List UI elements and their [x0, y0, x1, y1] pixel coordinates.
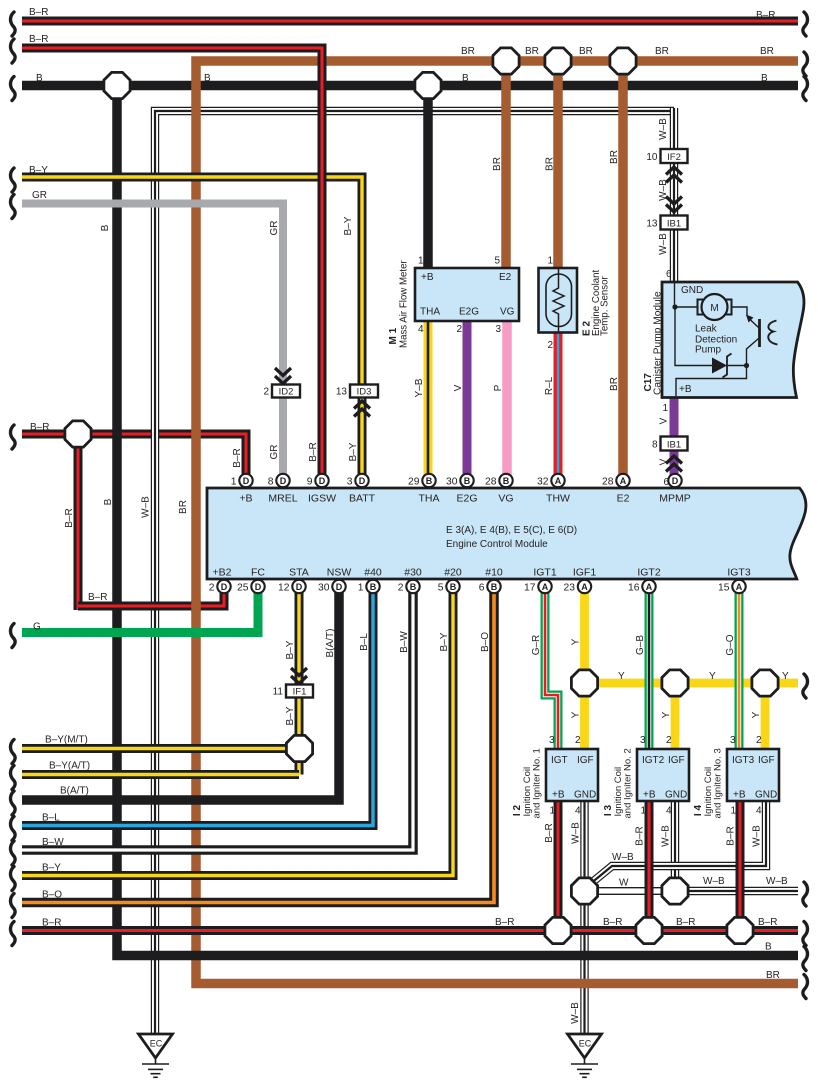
- svg-text:#10: #10: [485, 567, 503, 579]
- svg-text:25: 25: [237, 582, 249, 593]
- svg-text:B: B: [100, 224, 111, 231]
- svg-text:W–B: W–B: [752, 825, 763, 847]
- svg-text:2: 2: [398, 582, 404, 593]
- svg-text:+B: +B: [552, 790, 565, 801]
- svg-text:Y: Y: [571, 711, 582, 718]
- svg-text:4: 4: [575, 806, 581, 817]
- svg-text:#40: #40: [364, 567, 382, 579]
- svg-text:D: D: [336, 582, 343, 592]
- svg-text:R–L: R–L: [544, 376, 555, 395]
- svg-text:B–Y: B–Y: [343, 216, 354, 235]
- svg-text:2: 2: [547, 340, 553, 351]
- svg-text:IGF1: IGF1: [573, 567, 596, 579]
- svg-text:D: D: [280, 476, 287, 486]
- svg-text:GND: GND: [574, 790, 596, 801]
- svg-text:B–R: B–R: [544, 823, 555, 842]
- svg-text:B: B: [491, 582, 498, 592]
- svg-text:IF1: IF1: [293, 686, 307, 697]
- svg-text:B–Y: B–Y: [285, 640, 296, 659]
- svg-text:28: 28: [602, 476, 614, 487]
- svg-text:A: A: [736, 582, 743, 592]
- svg-text:V: V: [659, 458, 670, 465]
- svg-text:B–R: B–R: [495, 917, 514, 928]
- svg-text:4: 4: [756, 806, 762, 817]
- svg-text:B: B: [450, 582, 457, 592]
- svg-text:NSW: NSW: [327, 567, 352, 579]
- svg-text:23: 23: [564, 582, 576, 593]
- svg-text:Y: Y: [751, 711, 762, 718]
- svg-text:B(A/T): B(A/T): [325, 629, 336, 658]
- svg-text:A: A: [646, 582, 653, 592]
- svg-text:W–B: W–B: [703, 876, 725, 887]
- svg-text:29: 29: [408, 476, 420, 487]
- svg-text:GND: GND: [755, 790, 777, 801]
- svg-text:B: B: [462, 73, 469, 84]
- svg-text:D: D: [359, 476, 366, 486]
- svg-text:1: 1: [231, 476, 237, 487]
- svg-text:and Igniter No. 2: and Igniter No. 2: [623, 748, 634, 818]
- svg-text:BATT: BATT: [349, 493, 376, 505]
- svg-text:B–R: B–R: [232, 448, 243, 467]
- svg-text:B: B: [36, 73, 43, 84]
- svg-text:B–Y: B–Y: [439, 632, 450, 651]
- svg-text:3: 3: [730, 735, 736, 746]
- svg-text:IGT2: IGT2: [637, 567, 660, 579]
- svg-text:B–R: B–R: [88, 592, 107, 603]
- svg-text:30: 30: [318, 582, 330, 593]
- svg-text:+B: +B: [643, 790, 656, 801]
- svg-text:IB1: IB1: [667, 218, 681, 229]
- svg-text:1: 1: [730, 806, 736, 817]
- svg-text:13: 13: [646, 219, 658, 230]
- svg-text:1: 1: [418, 256, 424, 267]
- svg-text:B: B: [103, 498, 114, 505]
- svg-text:E2G: E2G: [456, 493, 477, 505]
- svg-text:G: G: [33, 622, 41, 633]
- svg-text:1: 1: [662, 403, 668, 414]
- svg-text:9: 9: [307, 476, 313, 487]
- svg-text:B: B: [204, 73, 211, 84]
- svg-text:GR: GR: [32, 190, 47, 201]
- svg-text:B–W: B–W: [399, 631, 410, 653]
- svg-text:IF2: IF2: [667, 152, 681, 163]
- svg-text:13: 13: [336, 387, 348, 398]
- svg-text:STA: STA: [289, 567, 309, 579]
- svg-text:B–Y: B–Y: [42, 863, 61, 874]
- svg-text:+B: +B: [679, 384, 692, 395]
- svg-text:2: 2: [263, 387, 269, 398]
- svg-text:2: 2: [575, 735, 581, 746]
- svg-text:IGF: IGF: [577, 755, 594, 766]
- svg-text:B: B: [370, 582, 377, 592]
- svg-text:1: 1: [640, 806, 646, 817]
- svg-text:16: 16: [628, 582, 640, 593]
- svg-text:B–L: B–L: [42, 813, 60, 824]
- svg-text:B–R: B–R: [30, 422, 49, 433]
- svg-text:B: B: [761, 73, 768, 84]
- svg-text:VG: VG: [500, 307, 515, 318]
- svg-text:D: D: [243, 476, 250, 486]
- svg-text:2: 2: [209, 582, 215, 593]
- svg-text:1: 1: [547, 256, 553, 267]
- svg-text:3: 3: [640, 735, 646, 746]
- svg-text:W–B: W–B: [570, 1002, 581, 1024]
- svg-text:Temp. Sensor: Temp. Sensor: [600, 275, 611, 336]
- svg-text:IGT3: IGT3: [732, 755, 755, 766]
- svg-text:G–B: G–B: [635, 635, 646, 655]
- svg-text:B–R: B–R: [756, 10, 775, 21]
- svg-text:E2: E2: [617, 493, 630, 505]
- svg-text:BR: BR: [492, 157, 503, 171]
- svg-text:THW: THW: [546, 493, 570, 505]
- svg-text:B(A/T): B(A/T): [60, 786, 89, 797]
- svg-text:1: 1: [358, 582, 364, 593]
- svg-text:+B: +B: [733, 790, 746, 801]
- svg-text:B–Y(A/T): B–Y(A/T): [49, 761, 90, 772]
- svg-text:5: 5: [494, 256, 500, 267]
- svg-text:3: 3: [549, 735, 555, 746]
- svg-text:EC: EC: [150, 1039, 163, 1049]
- svg-text:Leak: Leak: [695, 324, 718, 335]
- svg-text:B–Y(M/T): B–Y(M/T): [45, 735, 88, 746]
- svg-text:3: 3: [495, 324, 501, 335]
- svg-text:B–R: B–R: [758, 917, 777, 928]
- svg-text:B–R: B–R: [726, 826, 737, 845]
- svg-text:VG: VG: [498, 493, 513, 505]
- svg-text:G–R: G–R: [531, 635, 542, 656]
- svg-text:W–B: W–B: [658, 179, 669, 201]
- svg-text:B–R: B–R: [676, 917, 695, 928]
- svg-text:B: B: [410, 582, 417, 592]
- svg-text:E2G: E2G: [459, 307, 479, 318]
- svg-text:IGT1: IGT1: [533, 567, 556, 579]
- svg-text:and Igniter No. 3: and Igniter No. 3: [713, 748, 724, 818]
- svg-text:D: D: [296, 582, 303, 592]
- svg-text:A: A: [555, 476, 562, 486]
- svg-text:ID2: ID2: [279, 386, 294, 397]
- svg-text:W–B: W–B: [612, 852, 634, 863]
- svg-text:28: 28: [485, 476, 497, 487]
- svg-text:EC: EC: [579, 1039, 592, 1049]
- svg-text:B–Y: B–Y: [348, 442, 359, 461]
- svg-text:BR: BR: [525, 46, 539, 57]
- svg-text:B–W: B–W: [42, 837, 64, 848]
- svg-text:Mass Air Flow Meter: Mass Air Flow Meter: [399, 259, 410, 348]
- svg-text:8: 8: [268, 476, 274, 487]
- svg-text:MREL: MREL: [268, 493, 297, 505]
- svg-text:BR: BR: [609, 150, 620, 164]
- svg-text:10: 10: [646, 152, 658, 163]
- svg-text:W–B: W–B: [766, 876, 788, 887]
- svg-text:A: A: [542, 582, 549, 592]
- svg-text:B: B: [426, 476, 433, 486]
- svg-text:GND: GND: [665, 790, 687, 801]
- svg-text:IGT: IGT: [551, 755, 568, 766]
- svg-text:BR: BR: [178, 500, 189, 514]
- svg-text:Y: Y: [709, 671, 716, 682]
- svg-text:BR: BR: [461, 46, 475, 57]
- svg-text:IGF: IGF: [668, 755, 685, 766]
- svg-text:IGT2: IGT2: [642, 755, 665, 766]
- svg-text:3: 3: [347, 476, 353, 487]
- svg-text:D: D: [221, 582, 228, 592]
- svg-text:Y: Y: [782, 671, 789, 682]
- svg-text:G–O: G–O: [725, 634, 736, 655]
- svg-text:A: A: [581, 582, 588, 592]
- svg-text:D: D: [255, 582, 262, 592]
- svg-text:30: 30: [446, 476, 458, 487]
- svg-text:B: B: [503, 476, 510, 486]
- svg-text:2: 2: [756, 735, 762, 746]
- svg-text:Engine Control Module: Engine Control Module: [446, 539, 548, 550]
- svg-text:4: 4: [418, 324, 424, 335]
- svg-text:2: 2: [456, 324, 462, 335]
- svg-text:B–R: B–R: [64, 508, 75, 527]
- svg-text:B–R: B–R: [603, 917, 622, 928]
- svg-text:Canister Pump Module: Canister Pump Module: [653, 291, 664, 395]
- svg-text:+B2: +B2: [213, 567, 232, 579]
- svg-text:Y: Y: [618, 671, 625, 682]
- svg-text:BR: BR: [766, 970, 780, 981]
- svg-text:Y: Y: [661, 711, 672, 718]
- svg-text:IGT3: IGT3: [727, 567, 750, 579]
- svg-text:D: D: [319, 476, 326, 486]
- svg-text:M: M: [710, 303, 718, 314]
- svg-text:17: 17: [524, 582, 536, 593]
- svg-text:Pump: Pump: [695, 345, 722, 356]
- svg-text:W–B: W–B: [661, 825, 672, 847]
- svg-text:32: 32: [537, 476, 549, 487]
- svg-text:E 3(A), E 4(B), E 5(C), E 6(D): E 3(A), E 4(B), E 5(C), E 6(D): [446, 525, 577, 536]
- svg-text:MPMP: MPMP: [659, 493, 691, 505]
- svg-text:2: 2: [666, 735, 672, 746]
- svg-text:V: V: [453, 384, 464, 391]
- svg-text:E2: E2: [499, 272, 512, 283]
- svg-text:+B: +B: [421, 272, 434, 283]
- svg-text:6: 6: [479, 582, 485, 593]
- svg-text:B–R: B–R: [29, 34, 48, 45]
- svg-text:D: D: [672, 476, 679, 486]
- svg-text:11: 11: [273, 687, 284, 698]
- svg-text:+B: +B: [239, 493, 252, 505]
- svg-text:W: W: [619, 878, 629, 889]
- svg-text:THA: THA: [419, 493, 440, 505]
- svg-text:BR: BR: [545, 157, 556, 171]
- svg-text:4: 4: [666, 806, 672, 817]
- svg-text:M 1: M 1: [388, 327, 399, 344]
- svg-text:B–L: B–L: [359, 633, 370, 651]
- svg-text:B–R: B–R: [635, 826, 646, 845]
- svg-text:W–B: W–B: [571, 822, 582, 844]
- svg-text:B–R: B–R: [29, 7, 48, 18]
- svg-text:W–B: W–B: [658, 118, 669, 140]
- svg-text:W–B: W–B: [658, 233, 669, 255]
- svg-text:BR: BR: [655, 46, 669, 57]
- svg-text:ID3: ID3: [357, 386, 372, 397]
- svg-text:B–Y: B–Y: [29, 165, 48, 176]
- svg-text:B–R: B–R: [308, 442, 319, 461]
- svg-text:Y–B: Y–B: [414, 378, 425, 397]
- svg-text:FC: FC: [251, 567, 265, 579]
- svg-text:B–O: B–O: [42, 890, 62, 901]
- svg-text:5: 5: [438, 582, 444, 593]
- svg-text:8: 8: [652, 440, 658, 451]
- svg-text:Y: Y: [571, 638, 582, 645]
- svg-text:P: P: [493, 384, 504, 391]
- svg-text:B–R: B–R: [42, 918, 61, 929]
- svg-text:12: 12: [278, 582, 290, 593]
- svg-text:#30: #30: [404, 567, 422, 579]
- svg-text:IB1: IB1: [667, 439, 681, 450]
- svg-text:BR: BR: [760, 46, 774, 57]
- svg-text:1: 1: [549, 806, 555, 817]
- svg-text:15: 15: [718, 582, 730, 593]
- svg-text:IGF: IGF: [758, 755, 775, 766]
- svg-text:GND: GND: [681, 285, 703, 296]
- svg-text:B–O: B–O: [480, 632, 491, 652]
- svg-text:B: B: [464, 476, 471, 486]
- svg-text:IGSW: IGSW: [308, 493, 336, 505]
- svg-text:W–B: W–B: [141, 496, 152, 518]
- svg-text:B–Y: B–Y: [285, 706, 296, 725]
- svg-text:B: B: [765, 942, 772, 953]
- svg-text:V: V: [659, 417, 670, 424]
- svg-text:and Igniter No. 1: and Igniter No. 1: [532, 748, 543, 818]
- svg-text:THA: THA: [420, 307, 440, 318]
- svg-text:BR: BR: [609, 377, 620, 391]
- svg-text:BR: BR: [579, 46, 593, 57]
- svg-text:6: 6: [666, 269, 672, 280]
- svg-text:GR: GR: [269, 445, 280, 460]
- svg-text:#20: #20: [444, 567, 462, 579]
- svg-text:GR: GR: [269, 221, 280, 236]
- svg-text:A: A: [620, 476, 627, 486]
